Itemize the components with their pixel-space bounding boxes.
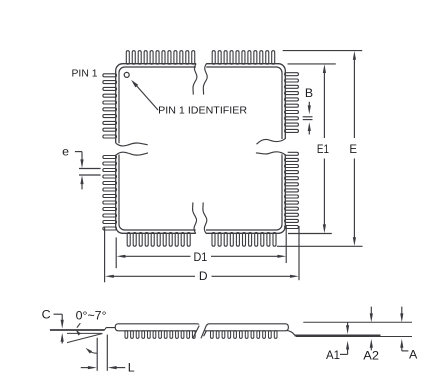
pin 1 identifier circle bbox=[124, 72, 129, 77]
svg-text:e: e bbox=[62, 145, 69, 159]
dimension E (overall height) bbox=[349, 51, 357, 246]
side view: leads under right body segment bbox=[211, 331, 278, 339]
side view: angle reference line 7 degrees (sloped) bbox=[67, 334, 103, 343]
side view: body left segment bbox=[115, 324, 199, 338]
leader arrow to pin 1 identifier bbox=[131, 80, 158, 110]
angle leader arrow upper bbox=[76, 323, 81, 335]
svg-text:0°~7°: 0°~7° bbox=[76, 309, 107, 323]
label 0~7 degrees bbox=[76, 309, 107, 323]
break squiggle: top edge bbox=[193, 64, 207, 95]
dimension A2 (body thickness) bbox=[363, 307, 379, 363]
break squiggle: left edge bbox=[116, 143, 148, 155]
pin group: right-lower (13 leads) bbox=[285, 152, 299, 228]
side view: leads under left body segment bbox=[125, 331, 195, 339]
pin group: bottom-left (11 leads) bbox=[127, 233, 190, 247]
pin group: left-upper (10 leads), pin 1 first bbox=[103, 74, 117, 138]
svg-text:PIN 1 IDENTIFIER: PIN 1 IDENTIFIER bbox=[158, 106, 247, 117]
side view: body right segment bbox=[201, 324, 288, 339]
dimension D (overall width) bbox=[105, 269, 299, 283]
extension line: E1 bottom (body edge) bbox=[288, 233, 332, 235]
pin group: top-left (12 leads) bbox=[126, 51, 194, 64]
extension line: E top (pin tips) bbox=[283, 50, 363, 52]
extension line: E bottom (pin tips) bbox=[277, 245, 363, 247]
angle leader arrow lower bbox=[86, 348, 98, 354]
dimension e (lead pitch) bbox=[62, 145, 101, 190]
dimension E1 (body height) bbox=[317, 64, 329, 233]
extension lines for L bbox=[97, 335, 107, 371]
package body outer outline bbox=[116, 64, 286, 234]
pin group: bottom-right (11 leads) bbox=[212, 233, 276, 247]
extension line: seating plane (bottom) bbox=[296, 336, 412, 338]
svg-text:A1: A1 bbox=[326, 348, 340, 362]
extension line: E1 top (body edge) bbox=[288, 63, 336, 65]
svg-text:E: E bbox=[349, 142, 357, 156]
break squiggle: right edge bbox=[256, 139, 285, 155]
svg-text:D1: D1 bbox=[194, 250, 208, 264]
break gap erasers bbox=[114, 61, 288, 235]
svg-text:C: C bbox=[42, 308, 51, 322]
svg-text:A2: A2 bbox=[363, 349, 379, 363]
label PIN 1 IDENTIFIER bbox=[158, 106, 247, 117]
pin group: top-right (11 leads) bbox=[212, 51, 275, 64]
dimension D1 (body width) bbox=[117, 250, 287, 264]
dimension L (foot length) bbox=[81, 360, 135, 374]
pin group: left-lower (12 leads) bbox=[103, 156, 117, 231]
side view: right foot (thick) on seating plane bbox=[295, 335, 381, 337]
dimension B (lead width) bbox=[303, 86, 313, 134]
break squiggle: bottom edge bbox=[193, 202, 207, 233]
dimension C (lead thickness) bbox=[42, 308, 64, 344]
pin group: right-upper (10 leads) bbox=[285, 73, 299, 133]
side view: left lead extended foot (thick) bbox=[50, 328, 116, 331]
extension line: D left (pin tips) bbox=[104, 227, 106, 283]
svg-text:B: B bbox=[305, 86, 313, 100]
svg-text:E1: E1 bbox=[317, 142, 329, 156]
side view: angle reference line 0 degrees bbox=[67, 332, 102, 334]
extension line: D right (pin tips) bbox=[298, 226, 300, 280]
svg-text:D: D bbox=[199, 269, 208, 283]
extension line: package top (side view) bbox=[303, 321, 412, 323]
label PIN 1 bbox=[72, 69, 98, 80]
svg-text:A: A bbox=[409, 348, 418, 362]
extension line: D1 right (body edge) bbox=[285, 225, 287, 263]
side view: right lead bend to foot bbox=[287, 331, 296, 336]
package body inner outline bbox=[119, 67, 282, 230]
extension line: D1 left (body edge) bbox=[115, 237, 117, 268]
dimension A1 (standoff) bbox=[326, 322, 349, 362]
svg-text:L: L bbox=[128, 360, 135, 374]
dimension A (overall height) bbox=[400, 307, 418, 362]
svg-text:PIN 1: PIN 1 bbox=[72, 69, 98, 80]
